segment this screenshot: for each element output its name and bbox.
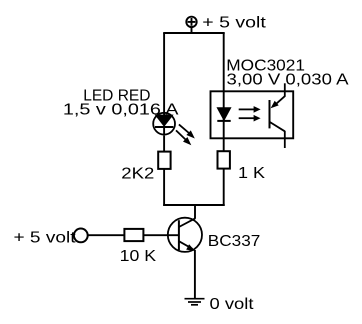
wire top rail — [163, 32, 225, 34]
svg-text:+ 5 volt: + 5 volt — [202, 15, 266, 32]
wire base — [88, 234, 179, 236]
input terminal — [74, 229, 88, 243]
optocoupler LED — [217, 108, 230, 121]
wire collector rail — [163, 204, 225, 206]
wire left drop to LED — [163, 33, 165, 116]
LED light arrow 1 — [179, 124, 195, 138]
optocoupler phototransistor — [270, 83, 285, 148]
optocoupler transistor arrow — [271, 101, 279, 109]
wire collector drop — [194, 205, 196, 219]
svg-text:10 K: 10 K — [120, 248, 157, 265]
wire 2K2 to collector rail — [163, 169, 165, 206]
ground — [185, 299, 205, 305]
svg-text:3,00 V 0,030 A: 3,00 V 0,030 A — [227, 72, 349, 89]
LED light arrow 2 — [176, 130, 191, 145]
resistor 2K2 — [158, 152, 170, 169]
resistor 10K — [124, 229, 143, 241]
optocoupler U1 box — [211, 91, 294, 138]
svg-text:1 K: 1 K — [238, 165, 265, 182]
power symbol +5V — [186, 17, 196, 33]
svg-text:BC337: BC337 — [208, 233, 261, 250]
svg-text:2K2: 2K2 — [121, 165, 154, 182]
wire LED to 2K2 — [163, 136, 165, 152]
transistor BC337 Q1 — [168, 218, 202, 252]
wire 1K to collector rail — [223, 169, 225, 206]
wire right drop to optocoupler — [223, 33, 225, 152]
svg-text:+ 5 volt: + 5 volt — [14, 230, 77, 247]
optocoupler light arrow 2 — [239, 115, 261, 122]
optocoupler light arrow 1 — [239, 106, 261, 113]
resistor 1K — [218, 151, 230, 168]
wire emitter to ground — [194, 250, 196, 299]
svg-text:0 volt: 0 volt — [210, 296, 255, 313]
LED RED diode D1 — [153, 113, 175, 136]
transistor emitter arrow — [186, 244, 195, 251]
